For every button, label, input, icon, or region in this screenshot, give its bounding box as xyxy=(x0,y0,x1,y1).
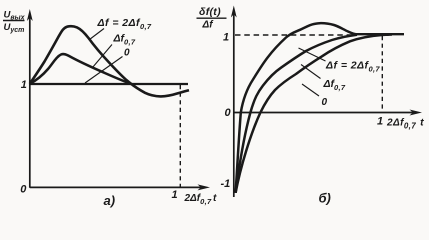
y-axis arrowhead xyxy=(27,9,33,21)
svg-text:0: 0 xyxy=(124,48,130,59)
y-axis label fraction U_вых / U_уст xyxy=(3,10,26,34)
svg-text:1: 1 xyxy=(172,189,178,201)
svg-text:-1: -1 xyxy=(221,178,231,190)
svg-text:Δf0,7: Δf0,7 xyxy=(113,32,136,46)
leader line to curve Δf=2Δf0,7 (right) xyxy=(299,48,326,61)
settled solid line after convergence (right plot) xyxy=(352,33,404,35)
svg-text:Δf = 2Δf0,7: Δf = 2Δf0,7 xyxy=(325,60,380,74)
x-axis arrowhead xyxy=(198,184,211,190)
settled level line y=1 (the "0" curve, left plot) xyxy=(30,83,188,85)
leader line to curve Δf0,7 (left) xyxy=(93,45,113,68)
svg-text:Δf: Δf xyxy=(202,20,215,31)
y-axis label fraction δf(t)/Δf xyxy=(197,6,227,30)
curve 0 (right plot, slowest) xyxy=(236,35,392,193)
svg-text:Δf0,7: Δf0,7 xyxy=(323,78,346,92)
dashed vertical at x=1 (right plot) xyxy=(381,36,383,112)
x-axis arrowhead (right) xyxy=(410,110,423,116)
y-axis (right plot) xyxy=(233,12,235,197)
svg-text:0: 0 xyxy=(322,97,328,108)
y-axis arrowhead (right) xyxy=(231,6,237,18)
curve Δf0,7 (left plot, small overshoot) xyxy=(30,54,130,84)
leader line to settled line, curve 0 (left) xyxy=(85,57,123,84)
dashed level line y=1 (right plot) xyxy=(235,34,356,36)
x-axis xyxy=(30,186,204,188)
leader line to curve 0 (right) xyxy=(302,84,319,96)
svg-text:δf(t): δf(t) xyxy=(199,6,221,18)
svg-text:0: 0 xyxy=(225,107,232,119)
y-axis xyxy=(29,15,31,188)
svg-text:1: 1 xyxy=(377,116,383,128)
svg-text:Δf = 2Δf0,7: Δf = 2Δf0,7 xyxy=(97,17,152,31)
svg-text:1: 1 xyxy=(223,32,229,44)
svg-text:2Δf0,7t: 2Δf0,7t xyxy=(184,193,217,206)
svg-text:1: 1 xyxy=(21,79,27,91)
svg-text:0: 0 xyxy=(20,184,27,196)
curve Δf=2Δf0,7 (left plot, large overshoot) xyxy=(30,26,189,96)
x-axis (right plot) xyxy=(234,112,416,114)
svg-text:б): б) xyxy=(319,191,331,206)
svg-text:Uуст: Uуст xyxy=(4,22,25,34)
curve Δf0,7 (right plot, middle) xyxy=(236,35,357,193)
dashed vertical at x=1 (left plot) xyxy=(179,85,181,187)
leader line to curve Δf0,7 (right) xyxy=(301,65,321,79)
curve Δf=2Δf0,7 (right plot, fastest, overshoot hump) xyxy=(236,23,356,193)
svg-text:2Δf0,7t: 2Δf0,7t xyxy=(386,117,424,131)
svg-text:а): а) xyxy=(104,193,116,208)
leader line to curve Δf=2Δf0,7 (left) xyxy=(90,29,105,40)
